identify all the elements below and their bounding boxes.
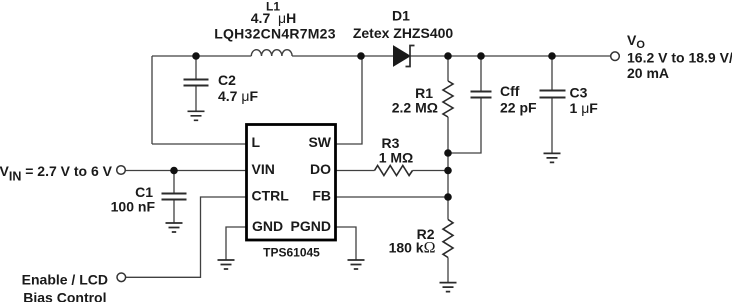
- svg-text:LQH32CN4R7M23: LQH32CN4R7M23: [214, 25, 336, 41]
- node Cff top: [477, 52, 485, 60]
- svg-text:R1: R1: [415, 85, 433, 101]
- svg-text:Zetex ZHZS400: Zetex ZHZS400: [353, 25, 454, 41]
- wire GND pin to ground: [226, 227, 246, 260]
- resistor R1: [443, 81, 453, 117]
- node DO / R3: [444, 167, 452, 175]
- capacitor Cff: [471, 92, 492, 98]
- wire C2 stems: [195, 56, 197, 111]
- svg-text:180 kΩ: 180 kΩ: [389, 240, 436, 257]
- svg-text:FB: FB: [312, 187, 331, 203]
- wire C3 stems: [551, 56, 553, 153]
- ground (C1): [166, 223, 183, 232]
- diode D1 (Zener): [394, 46, 415, 67]
- svg-text:Cff: Cff: [500, 83, 520, 99]
- node C2 top: [192, 52, 200, 60]
- wire left vertical of input loop: [151, 56, 153, 144]
- ground (R2): [440, 283, 457, 292]
- wire C1 stems: [173, 171, 175, 223]
- svg-text:D1: D1: [392, 7, 410, 23]
- wire L pin to left loop: [152, 143, 246, 145]
- svg-text:4.7 μH: 4.7 μH: [251, 10, 296, 26]
- node R1 top: [444, 52, 452, 60]
- wire CTRL pin to Enable terminal: [126, 197, 246, 277]
- ground (GND pin): [218, 260, 235, 269]
- svg-text:20 mA: 20 mA: [627, 65, 669, 81]
- svg-text:16.2 V to 18.9 V/: 16.2 V to 18.9 V/: [627, 50, 732, 66]
- terminal VO: [611, 52, 620, 61]
- wire R2 bottom to ground: [447, 258, 449, 283]
- svg-text:1 MΩ: 1 MΩ: [379, 149, 414, 165]
- inductor L1: [251, 50, 292, 56]
- op-amp U1 TPS61045 box: [247, 125, 336, 241]
- resistor R3: [375, 166, 413, 176]
- svg-text:C2: C2: [218, 72, 236, 88]
- ground (C2): [188, 111, 205, 120]
- wire top rail from L1 loop to VO terminal: [152, 55, 611, 57]
- wire Cff stems: [448, 56, 481, 153]
- capacitor C3: [540, 91, 566, 98]
- svg-text:Bias Control: Bias Control: [23, 289, 106, 302]
- svg-text:1 μF: 1 μF: [570, 100, 599, 116]
- svg-text:SW: SW: [308, 134, 331, 150]
- svg-text:22 pF: 22 pF: [500, 99, 537, 115]
- svg-text:CTRL: CTRL: [252, 187, 290, 203]
- node FB: [444, 193, 452, 201]
- wire SW pin up to top rail: [336, 56, 362, 144]
- svg-text:C1: C1: [135, 184, 153, 200]
- wire feedback vertical R1 bottom to R2 top: [447, 117, 449, 220]
- svg-text:4.7 μF: 4.7 μF: [218, 88, 258, 104]
- wire R1 top stem: [447, 56, 449, 81]
- node C1 top: [170, 167, 178, 175]
- ground (C3): [544, 153, 561, 162]
- wire PGND pin to ground: [337, 227, 357, 260]
- svg-text:2.2 MΩ: 2.2 MΩ: [392, 99, 438, 115]
- terminal Enable: [117, 273, 126, 282]
- svg-text:PGND: PGND: [291, 218, 331, 234]
- wire DO pin to R3: [337, 170, 375, 172]
- capacitor C2: [184, 80, 209, 86]
- node SW top: [357, 52, 365, 60]
- svg-text:TPS61045: TPS61045: [263, 246, 320, 260]
- node R1 bottom: [444, 149, 452, 157]
- svg-text:C3: C3: [570, 85, 588, 101]
- svg-text:100 nF: 100 nF: [111, 199, 156, 215]
- wire FB pin to feedback node: [337, 196, 449, 198]
- svg-text:GND: GND: [252, 218, 283, 234]
- resistor R2: [443, 220, 453, 258]
- terminal VIN: [117, 166, 126, 175]
- wire R3 to feedback node: [413, 170, 449, 172]
- svg-text:DO: DO: [310, 161, 331, 177]
- ground (PGND pin): [348, 260, 365, 269]
- svg-text:VIN: VIN: [252, 161, 275, 177]
- capacitor C1: [162, 194, 187, 200]
- svg-text:Enable / LCD: Enable / LCD: [22, 272, 108, 288]
- node C3 top: [548, 52, 556, 60]
- svg-text:L: L: [252, 134, 261, 150]
- wire VIN input to VIN pin: [126, 170, 247, 172]
